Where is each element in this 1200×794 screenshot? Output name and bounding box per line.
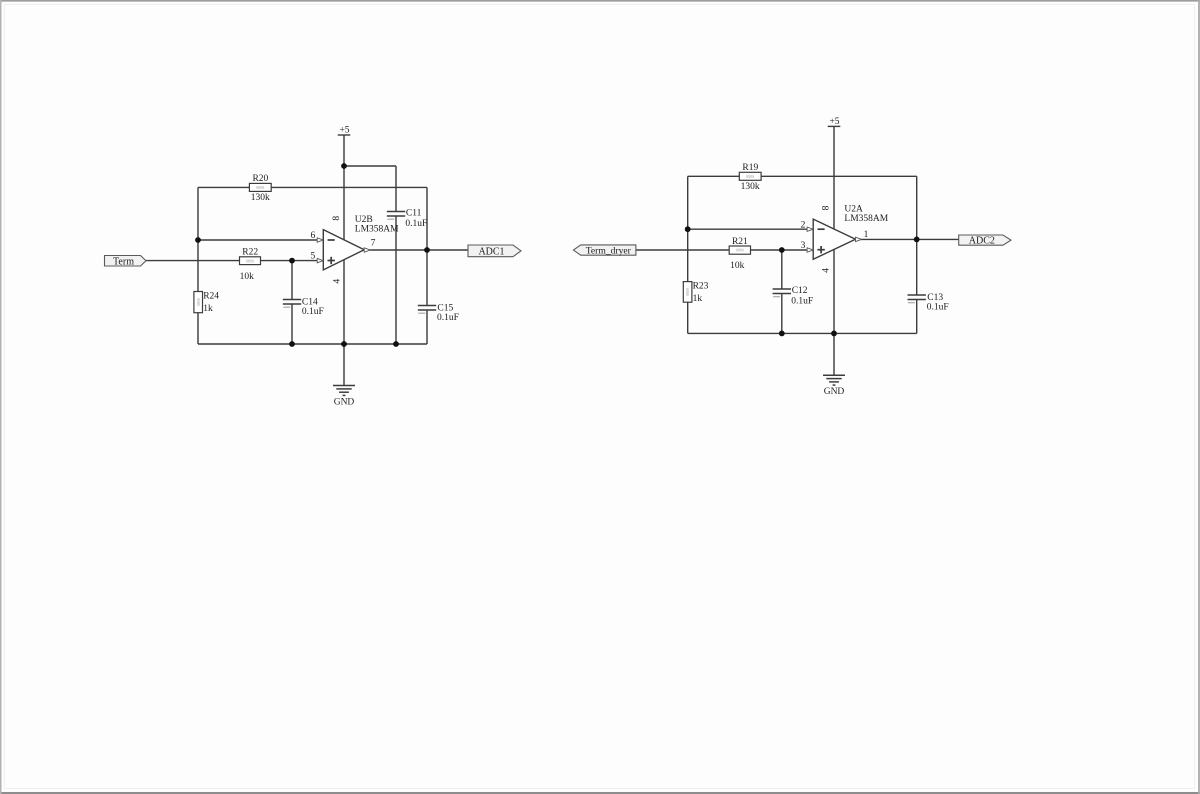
- svg-text:LM358AM: LM358AM: [844, 214, 888, 224]
- svg-text:C11: C11: [406, 209, 422, 219]
- svg-text:2: 2: [801, 220, 806, 230]
- svg-text:1k: 1k: [693, 294, 703, 304]
- svg-text:3: 3: [801, 241, 806, 251]
- svg-text:GND: GND: [334, 397, 355, 407]
- svg-text:130k: 130k: [741, 182, 760, 192]
- svg-text:U2A: U2A: [844, 205, 863, 215]
- svg-text:0.1uF: 0.1uF: [437, 313, 459, 323]
- svg-text:R19: R19: [742, 163, 758, 173]
- svg-text:0.1uF: 0.1uF: [927, 303, 949, 313]
- svg-text:0.1uF: 0.1uF: [405, 219, 427, 229]
- svg-text:ADC2: ADC2: [969, 236, 995, 247]
- svg-text:GND: GND: [824, 387, 845, 397]
- svg-text:R22: R22: [242, 248, 258, 258]
- svg-text:LM358AM: LM358AM: [355, 225, 399, 235]
- svg-text:C12: C12: [792, 286, 808, 296]
- svg-text:0.1uF: 0.1uF: [791, 296, 813, 306]
- svg-text:1k: 1k: [203, 304, 213, 314]
- svg-text:6: 6: [310, 231, 315, 241]
- svg-text:R20: R20: [252, 174, 268, 184]
- svg-text:080S: 080S: [246, 258, 254, 263]
- svg-text:R24: R24: [203, 291, 219, 301]
- svg-text:4: 4: [332, 279, 342, 284]
- svg-text:080S: 080S: [746, 174, 754, 179]
- svg-text:R23: R23: [693, 281, 709, 291]
- svg-text:C14: C14: [302, 297, 318, 307]
- svg-text:C13: C13: [927, 293, 943, 303]
- svg-text:ADC1: ADC1: [478, 246, 504, 257]
- svg-text:Term_dryer: Term_dryer: [586, 246, 632, 257]
- svg-text:10k: 10k: [730, 261, 745, 271]
- svg-text:5: 5: [310, 251, 315, 261]
- svg-text:080S: 080S: [685, 288, 690, 296]
- svg-text:U2B: U2B: [355, 215, 373, 225]
- svg-text:7: 7: [371, 238, 376, 248]
- svg-text:10k: 10k: [240, 272, 255, 282]
- svg-text:+5: +5: [339, 126, 349, 136]
- svg-text:0.1uF: 0.1uF: [302, 307, 324, 317]
- svg-text:130k: 130k: [251, 193, 270, 203]
- svg-text:8: 8: [332, 216, 342, 221]
- svg-text:C15: C15: [437, 304, 453, 314]
- svg-text:1: 1: [864, 230, 869, 240]
- svg-text:080S: 080S: [196, 298, 201, 306]
- svg-text:R21: R21: [732, 237, 748, 247]
- svg-text:080S: 080S: [736, 248, 744, 253]
- svg-text:4: 4: [822, 268, 832, 273]
- svg-text:080S: 080S: [256, 185, 264, 190]
- svg-text:Term: Term: [113, 256, 134, 267]
- svg-text:+5: +5: [829, 117, 839, 127]
- svg-text:8: 8: [822, 205, 832, 210]
